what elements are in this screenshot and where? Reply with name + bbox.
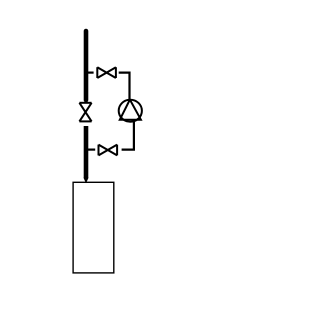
wire: main pipe lower segment xyxy=(84,126,89,178)
pump P1 impeller triangle xyxy=(120,100,141,120)
wire: main supply pipe upper segment xyxy=(84,31,89,100)
valve V3 (lower bypass valve) xyxy=(99,145,118,156)
valve V1 (upper bypass valve) xyxy=(97,67,116,78)
wire: upper branch stub from main pipe xyxy=(88,71,94,73)
wire: lower branch stub to main pipe xyxy=(88,149,95,151)
arrowhead into tank xyxy=(83,178,88,184)
wire: upper branch to pump inlet xyxy=(119,73,130,100)
wire: pump outlet down then left xyxy=(122,120,134,149)
tank xyxy=(73,182,114,273)
valve V2 (hourglass valve on main pipe) xyxy=(79,103,91,122)
pump P1 body circle xyxy=(119,100,142,122)
